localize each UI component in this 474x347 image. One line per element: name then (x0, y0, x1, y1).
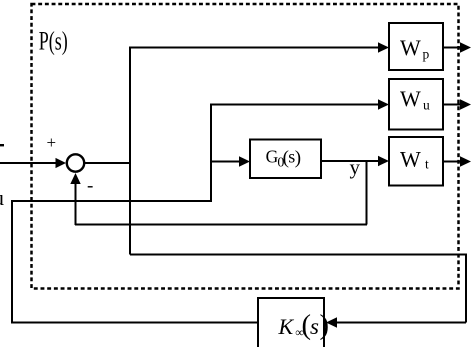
svg-text:): ) (320, 310, 330, 341)
wire u horizontal run (11, 200, 212, 202)
wire K output u to the left (12, 322, 258, 324)
svg-text:u: u (423, 98, 430, 113)
wire G0 output y (321, 160, 380, 162)
summing junction (67, 154, 84, 171)
wire feedback run (75, 224, 367, 226)
svg-text:W: W (400, 147, 421, 172)
block K-infinity controller (258, 298, 324, 347)
block Wu (389, 79, 443, 130)
wire right-side vertical down to controller (465, 254, 467, 323)
wire Wp output (443, 47, 462, 49)
svg-text:y: y (350, 155, 361, 179)
wire to Wu (210, 104, 380, 106)
wire r input (0, 162, 57, 164)
svg-text:): ) (295, 148, 301, 169)
wire u into G0 (210, 161, 241, 163)
wire into K (from right) (335, 322, 466, 324)
svg-text:W: W (400, 35, 421, 60)
wire feedback up into sum (75, 181, 77, 225)
svg-text:W: W (400, 86, 421, 111)
block G0(s) (250, 140, 321, 179)
plant boundary P(s) dashed box (32, 4, 459, 289)
wire sum output (84, 162, 131, 164)
wire error bottom run (130, 254, 466, 256)
svg-text:P(s): P(s) (39, 27, 68, 56)
svg-text:p: p (423, 47, 430, 62)
svg-text:+: + (47, 133, 57, 152)
svg-text:K: K (278, 314, 295, 339)
wire to Wp (129, 47, 380, 49)
wire Wu output (443, 104, 462, 106)
svg-text:u: u (0, 185, 4, 210)
wire y branch down (366, 161, 368, 225)
block Wt (389, 137, 443, 186)
svg-text:s: s (310, 314, 319, 339)
wire left vertical u rise (11, 200, 13, 324)
wire error vertical trunk (129, 47, 131, 255)
block Wp (389, 23, 443, 70)
svg-text:t: t (425, 157, 429, 172)
node r (cropped input label) (0, 144, 4, 146)
svg-text:-: - (87, 176, 93, 197)
wire Wt output (443, 161, 462, 163)
wire u vertical rise to Wu (210, 105, 212, 203)
